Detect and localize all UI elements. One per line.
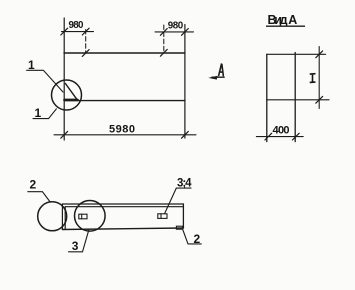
plan view bar bottom edge [62,228,183,230]
tick right end 980 left [82,28,89,35]
svg-text:3;4: 3;4 [177,177,192,189]
extension line 980 right (dashed) [163,25,165,53]
end view outline (Vid A) [267,53,295,142]
svg-text:1: 1 [28,58,35,72]
beam elevation right edge / extension line [184,25,186,139]
tick top H [316,51,323,58]
tick left end 5980 [61,131,68,138]
detail circle 3 around lifting loop [75,201,106,232]
thickened beam bottom edge inside detail 1 [65,99,78,102]
tick left end 980 left [61,28,68,35]
dimension line 400 [256,136,303,138]
svg-text:Вид: Вид [268,13,288,27]
svg-text:980: 980 [69,20,85,31]
svg-text:3: 3 [72,239,79,253]
lifting loop right [158,214,167,219]
tick right end 980 right [182,29,189,36]
svg-text:А: А [288,13,297,27]
svg-text:1: 1 [35,106,42,120]
lifting loop left [79,214,87,219]
leader for label 1 bottom [33,109,56,119]
detail circle 1 at beam corner [52,80,82,110]
svg-text:5980: 5980 [109,123,135,135]
leader for label 2 bottom-right [183,230,201,244]
svg-text:400: 400 [273,125,290,137]
extension line 980 left (dashed) [85,30,87,53]
leader for label 3 [69,230,89,252]
svg-text:980: 980 [168,20,184,31]
dimension line 980 right [155,31,194,33]
underline of title [266,25,305,27]
detail circle 2 at bar end [38,202,67,231]
end view top edge + extension [267,53,326,55]
tick at beam top for 980 right [160,49,167,56]
plan view bar right end [182,204,184,228]
beam elevation left edge / extension line [63,18,65,140]
tick left end 980 right [160,29,167,36]
svg-text:2: 2 [30,177,37,191]
plan view bar left end (double vertical) [62,204,65,230]
end view bottom edge + extension [267,99,329,101]
dimension line H [318,47,320,109]
label H (rotated, hand-drawn) [310,74,316,83]
leader for label 2 top-left [28,192,50,202]
tick right end 5980 [182,131,189,138]
letter A at view arrow (hand-drawn) [219,64,224,75]
tick right 400 [292,133,299,140]
plan view bar top edge (double line) [62,204,183,207]
tick left 400 [265,133,272,140]
embedded plate at right corner [176,226,182,229]
svg-text:2: 2 [194,232,201,246]
view direction arrow A [212,76,224,78]
dimension line 980 left [62,31,94,33]
tick at beam top for 980 left [82,50,89,57]
leader for label 3;4 [165,188,191,214]
chamfer line inside detail 1 [65,83,77,100]
leader for label 1 top [27,70,63,92]
dimension line 5980 [54,134,196,136]
beam elevation outline [64,53,185,101]
tick bottom H [316,96,323,103]
